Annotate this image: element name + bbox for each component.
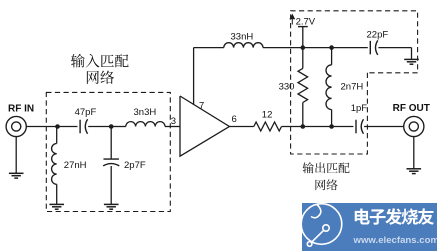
wire pin 6 to R2: [229, 126, 254, 128]
ground at L1: [49, 203, 64, 205]
svg-text:3n3H: 3n3H: [134, 107, 157, 118]
capacitor C2 2p7F: [103, 158, 119, 160]
wire 2.7V to node E: [302, 27, 304, 48]
ground at C4: [404, 58, 419, 60]
svg-text:12: 12: [262, 110, 273, 121]
svg-text:6: 6: [232, 114, 237, 125]
logo emblem circle: [301, 204, 342, 247]
op-amp U1 triangle: [180, 96, 229, 156]
node D junction dot: [329, 124, 334, 129]
svg-text:47pF: 47pF: [75, 107, 97, 118]
supply 2.7V bar: [298, 26, 308, 28]
label 输出匹配: [303, 162, 314, 173]
inductor L2 3n3H: [126, 122, 165, 127]
wire C5 to RF OUT: [364, 126, 404, 128]
resistor R1 330 wire top: [302, 48, 304, 69]
ground at RF OUT: [407, 168, 422, 170]
wire RF IN down to ground: [15, 137, 17, 174]
logo text 电子发烧友: [355, 209, 370, 225]
svg-text:7: 7: [199, 100, 204, 111]
wire node A to C1: [58, 126, 78, 128]
node F junction dot: [329, 45, 334, 50]
wire L2 to amp pin 3: [165, 126, 180, 128]
inductor L3 33nH: [224, 43, 263, 48]
inductor L4 2n7H: [326, 65, 332, 110]
RF IN connector J1: [6, 116, 26, 136]
ground at RF IN: [9, 172, 24, 174]
wire node D to C5: [332, 126, 354, 128]
input matching box (dashed): [46, 92, 170, 211]
svg-text:27nH: 27nH: [64, 160, 87, 171]
svg-text:1pF: 1pF: [351, 103, 368, 114]
ground at C2: [104, 203, 119, 205]
node C junction dot: [301, 124, 306, 129]
svg-text:2.7V: 2.7V: [296, 16, 316, 27]
wire C2 to ground: [110, 166, 112, 204]
logo blue box: [302, 203, 437, 251]
inductor L1 27nH wire top: [56, 127, 58, 144]
wire R1 to node C: [302, 103, 304, 127]
wire C4 to corner: [378, 47, 411, 49]
wire node E to node F: [303, 47, 332, 49]
node E junction dot: [301, 45, 306, 50]
wire L1 to ground: [56, 184, 58, 204]
label 网络 (input): [87, 71, 99, 84]
label 网络 (output): [315, 180, 325, 191]
resistor R1 330: [298, 68, 308, 102]
RF OUT connector J2: [404, 116, 424, 136]
wire C1 to node B: [88, 126, 111, 128]
capacitor C1 47pF: [79, 120, 81, 134]
node B junction dot: [109, 124, 114, 129]
capacitor C4 22pF: [369, 41, 371, 55]
svg-text:33nH: 33nH: [231, 32, 254, 43]
wire node F to C4: [332, 47, 368, 49]
inductor L4 2n7H wire top: [331, 48, 333, 65]
wire L4 to node D: [331, 110, 333, 127]
wire rail corner to L3: [194, 47, 224, 49]
wire corner down to ground: [411, 48, 413, 60]
svg-text:22pF: 22pF: [367, 29, 389, 40]
wire node B to L2: [111, 126, 126, 128]
wire pin 7 up to rail: [193, 48, 195, 105]
svg-text:330: 330: [279, 82, 295, 93]
wire L3 to node E: [263, 47, 303, 49]
label 输入匹配: [71, 54, 85, 68]
svg-text:2n7H: 2n7H: [341, 82, 364, 93]
svg-text:2p7F: 2p7F: [124, 160, 146, 171]
supply 2.7V arrow: [290, 15, 294, 25]
capacitor C5 1pF: [355, 120, 357, 134]
svg-text:3: 3: [171, 116, 176, 127]
svg-text:www.elecfans.com: www.elecfans.com: [353, 235, 437, 246]
svg-text:RF IN: RF IN: [8, 104, 34, 115]
inductor L1 27nH: [52, 144, 57, 185]
resistor R2 12: [254, 122, 282, 131]
output matching box (dashed): [291, 11, 418, 154]
wire RF IN to node A: [26, 126, 57, 128]
capacitor C2 2p7F wire top: [110, 127, 112, 159]
wire RF OUT down to ground: [413, 137, 415, 169]
wire node C to node D: [303, 126, 332, 128]
wire R2 to node C: [282, 126, 303, 128]
node A junction dot: [55, 124, 60, 129]
svg-text:RF OUT: RF OUT: [393, 103, 430, 114]
